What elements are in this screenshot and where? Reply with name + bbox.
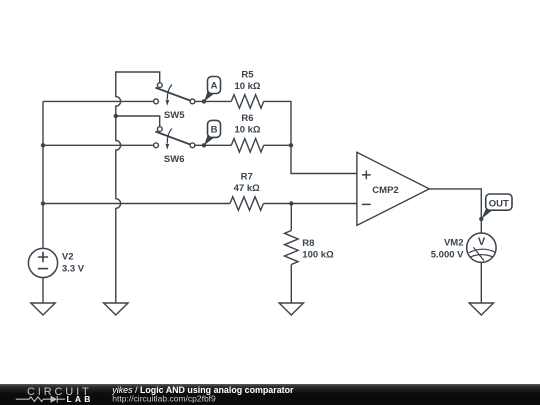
node OUT balloon: [486, 194, 512, 210]
resistor R7: [230, 197, 263, 211]
ground below VM2: [469, 303, 493, 315]
svg-text:SW5: SW5: [164, 110, 185, 121]
switch SW5 common terminal: [190, 99, 195, 104]
V2 plus marker: [38, 252, 48, 262]
VM2 meter upper arc: [469, 249, 495, 253]
svg-text:R5: R5: [241, 69, 254, 80]
wire SW6 loop: [116, 116, 160, 127]
switch SW5 actuator arrow: [167, 85, 172, 100]
svg-text:VM2: VM2: [444, 237, 464, 248]
junction dot node A: [202, 99, 206, 103]
wire R6 right lead: [264, 144, 291, 146]
svg-text:R8: R8: [302, 238, 314, 249]
resistor R8: [285, 231, 299, 265]
svg-text:CMP2: CMP2: [372, 185, 398, 196]
junction dot node OUT: [479, 217, 483, 221]
op-amp comparator CMP2 triangle: [357, 152, 429, 225]
node A balloon tail: [204, 90, 214, 102]
svg-text:A: A: [211, 81, 218, 92]
switch SW5 throw 2 terminal: [154, 99, 159, 104]
switch SW6 arrow head: [166, 144, 170, 150]
wire SW5 common to R5: [195, 100, 231, 102]
voltmeter VM2 circle: [467, 233, 496, 262]
switch SW5 lever: [155, 88, 190, 101]
CMP2 plus input marker: [362, 171, 371, 180]
wire to SW6 throw 2: [43, 144, 154, 146]
junction dot mid vertical / SW6 loop: [114, 114, 118, 118]
VM2 meter lower arc: [471, 255, 494, 257]
ground below mid vertical: [104, 303, 128, 315]
junction dot left vertical / R7 net: [41, 201, 45, 205]
wire SW6 common to R6: [195, 144, 231, 146]
voltage source V2 circle: [28, 248, 57, 277]
wire R7 to comparator minus input: [263, 203, 357, 205]
svg-text:R6: R6: [241, 113, 253, 124]
switch SW5 throw 1 terminal: [157, 83, 162, 88]
ground below R8: [279, 303, 303, 315]
wire to SW5 throw 2: [43, 100, 154, 102]
footer bar: [0, 384, 540, 405]
wire V2 to ground: [42, 278, 44, 304]
svg-text:V: V: [478, 236, 486, 248]
VM2 meter needle: [473, 247, 484, 261]
wire R8 bottom lead: [290, 265, 292, 304]
switch SW6 throw 2 terminal: [154, 143, 159, 148]
svg-text:http://circuitlab.com/cp2fbf9: http://circuitlab.com/cp2fbf9: [112, 394, 216, 404]
svg-text:47 kΩ: 47 kΩ: [234, 183, 260, 194]
node B balloon: [208, 120, 221, 137]
resistor R5: [231, 95, 263, 109]
CircuitLab logo resistor-diode line: [16, 396, 65, 403]
wire left vertical net: [42, 101, 44, 248]
node OUT balloon tail: [481, 208, 492, 219]
wire R7 left lead: [43, 203, 230, 205]
CMP2 minus input marker: [362, 203, 371, 205]
svg-text:10 kΩ: 10 kΩ: [234, 81, 260, 92]
CircuitLab logo diode triangle: [51, 396, 58, 403]
svg-text:100 kΩ: 100 kΩ: [302, 250, 334, 261]
wire VM2 to ground: [480, 262, 482, 303]
wire mid vertical with hops and SW5 loop: [116, 72, 160, 303]
svg-text:3.3 V: 3.3 V: [62, 264, 85, 275]
junction dot R6 to vertical: [289, 143, 293, 147]
resistor R6: [231, 139, 263, 153]
svg-text:10 kΩ: 10 kΩ: [234, 125, 260, 136]
junction dot R8 top: [289, 201, 293, 205]
svg-text:LAB: LAB: [67, 394, 94, 404]
switch SW6 throw 1 terminal: [157, 127, 162, 132]
junction dot node B: [202, 143, 206, 147]
svg-text:R7: R7: [241, 172, 253, 183]
switch SW5 arrow head: [166, 100, 170, 106]
svg-text:OUT: OUT: [489, 198, 509, 209]
V2 minus marker: [38, 268, 48, 270]
svg-text:SW6: SW6: [164, 154, 185, 165]
svg-text:5.000 V: 5.000 V: [431, 249, 464, 260]
node A balloon: [208, 77, 221, 94]
wire comparator output to OUT: [429, 189, 481, 233]
switch SW6 common terminal: [190, 143, 195, 148]
svg-text:B: B: [211, 125, 218, 136]
node B balloon tail: [204, 134, 214, 146]
switch SW6 lever: [155, 132, 190, 145]
wire R5 right lead to comparator plus input: [264, 101, 357, 173]
svg-text:V2: V2: [62, 252, 74, 263]
switch SW6 actuator arrow: [167, 129, 172, 144]
wire R8 top lead: [290, 204, 292, 231]
junction dot left vertical / SW6 net: [41, 143, 45, 147]
ground below V2: [31, 303, 55, 315]
